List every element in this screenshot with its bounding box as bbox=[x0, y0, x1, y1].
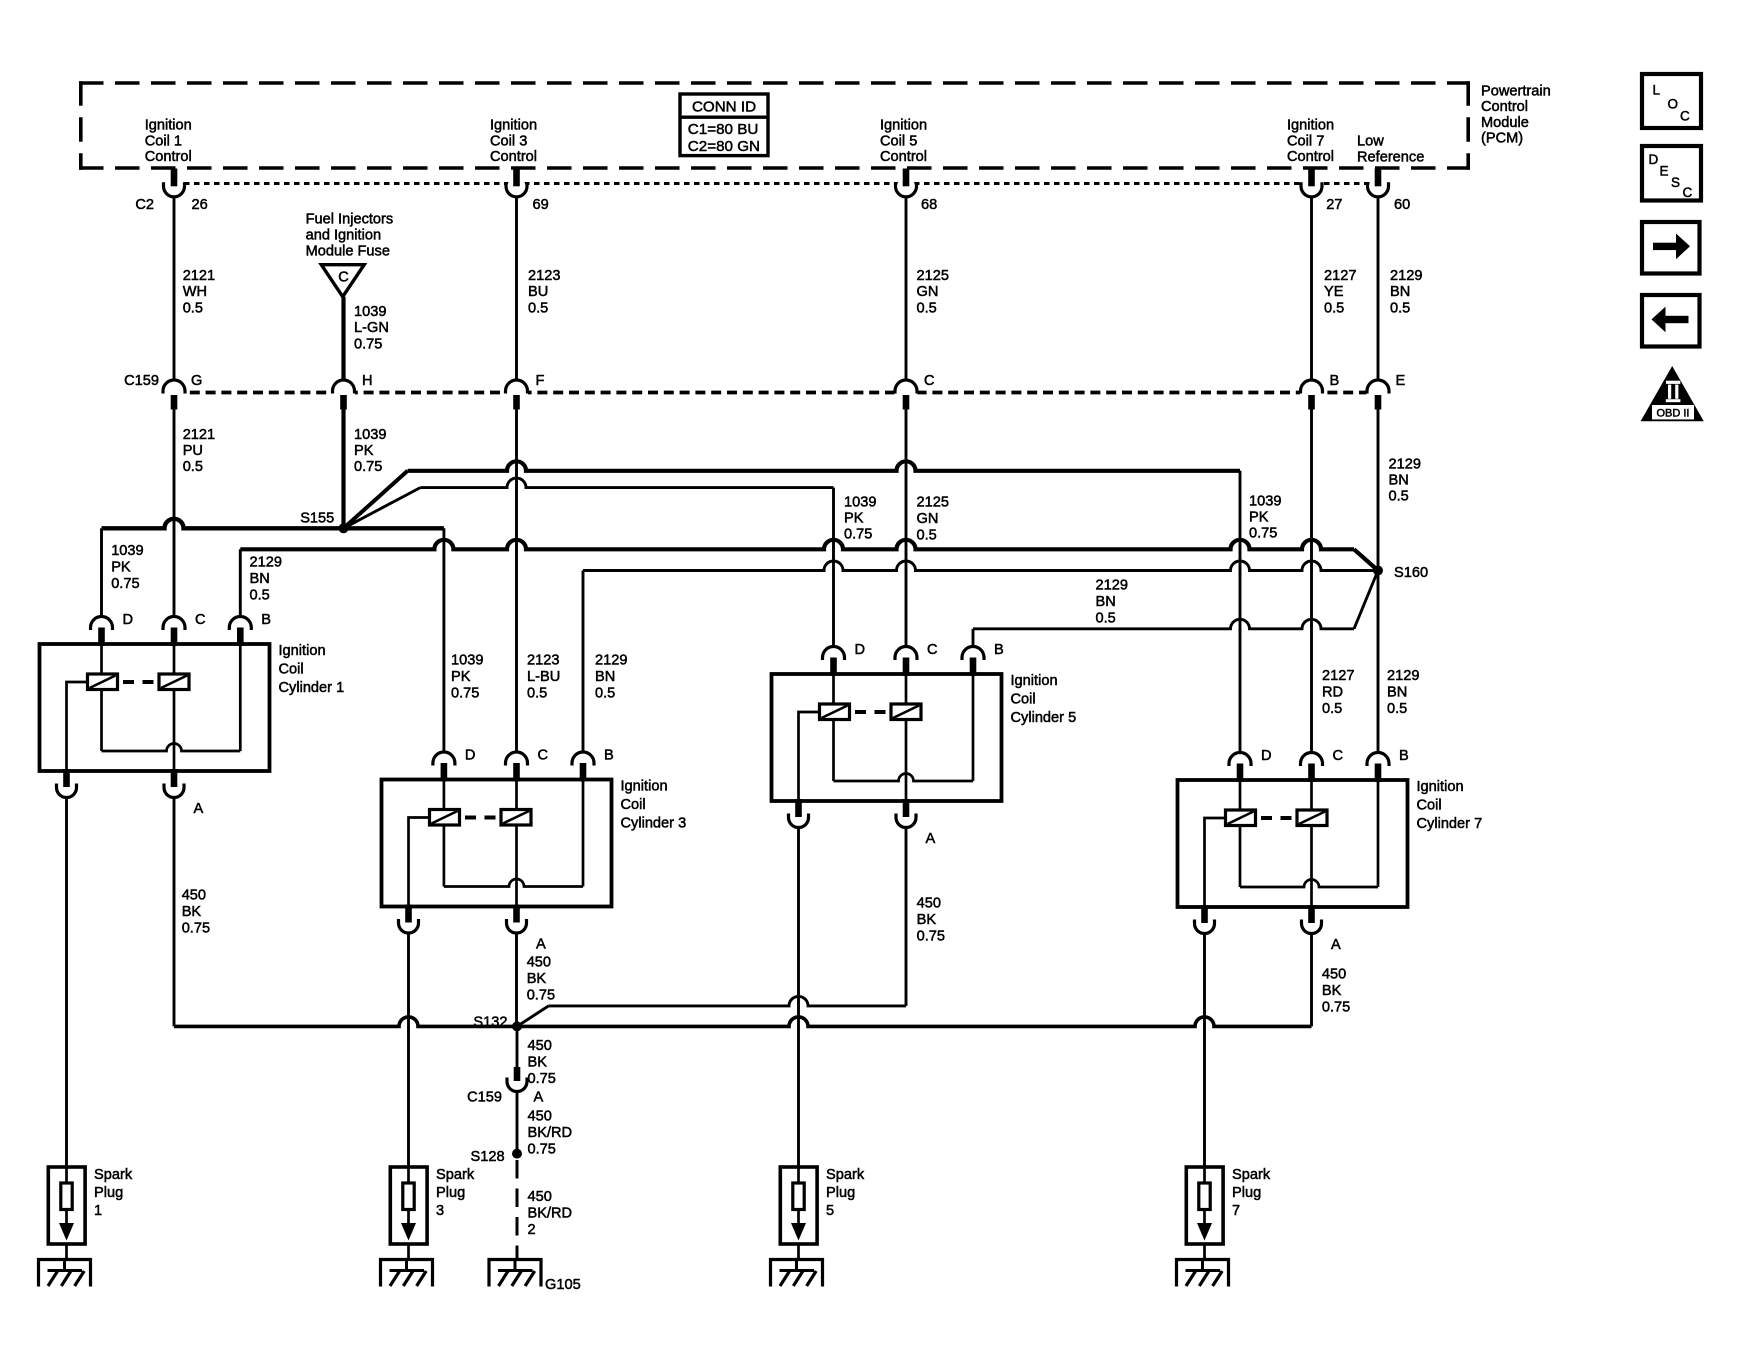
ground G105 bbox=[489, 1260, 541, 1287]
coil 3 secondary output connector bbox=[405, 905, 412, 923]
wire 2127 YE/RD 0.5 (C159 B to coil7 pin C) bbox=[1310, 410, 1313, 753]
wire 2129 BN 0.5 (pin 60 to C159 E) bbox=[1377, 197, 1380, 382]
spark plug 3 bbox=[390, 1167, 475, 1260]
svg-text:S128: S128 bbox=[471, 1149, 505, 1165]
svg-text:3: 3 bbox=[436, 1203, 444, 1219]
svg-text:A: A bbox=[926, 831, 936, 847]
svg-text:Plug: Plug bbox=[1232, 1185, 1261, 1201]
coil 3 winding mechanical link (dashed) bbox=[465, 816, 476, 820]
svg-text:BN: BN bbox=[1390, 284, 1410, 300]
svg-text:2129: 2129 bbox=[1387, 668, 1419, 684]
svg-text:H: H bbox=[362, 373, 373, 389]
svg-text:1039: 1039 bbox=[111, 543, 143, 559]
wire label 450 BK 0.75 (coil1 A) bbox=[182, 888, 210, 937]
spark plug 7 bbox=[1186, 1167, 1271, 1260]
wire label 2125 GN 0.5 (coil5 C) bbox=[917, 495, 949, 544]
svg-text:Control: Control bbox=[490, 149, 537, 165]
coil 3 pin B connector bbox=[572, 752, 594, 766]
coil 1 winding mechanical link (dashed) bbox=[123, 680, 134, 684]
ground (spark plug 3) bbox=[381, 1260, 433, 1287]
svg-text:D: D bbox=[123, 612, 134, 628]
svg-text:GN: GN bbox=[917, 511, 939, 527]
svg-text:C: C bbox=[1680, 109, 1690, 124]
svg-text:C159: C159 bbox=[124, 373, 159, 389]
fuse feed symbol C (power triangle) bbox=[321, 265, 364, 297]
svg-text:450: 450 bbox=[527, 955, 551, 971]
svg-text:D: D bbox=[1261, 748, 1272, 764]
PCM connector C2 pin 60 bbox=[1368, 169, 1411, 214]
PCM pin label: Ignition Coil 5 Control bbox=[880, 118, 927, 166]
svg-text:0.5: 0.5 bbox=[183, 459, 203, 475]
svg-text:0.5: 0.5 bbox=[1390, 300, 1410, 316]
svg-text:PK: PK bbox=[451, 669, 471, 685]
svg-text:26: 26 bbox=[192, 197, 208, 213]
PCM connector C2 pin 68 bbox=[896, 169, 938, 214]
wire 2129 BN coil5 pin B to splice S160 bbox=[973, 571, 1378, 647]
coil 1 pin D connector bbox=[91, 617, 113, 631]
svg-text:2129: 2129 bbox=[1096, 578, 1128, 594]
wire 2123 L-BU 0.5 (C159 F to coil3 pin C) bbox=[515, 410, 518, 753]
coil 1 secondary output connector bbox=[63, 769, 70, 787]
connector C159 pin F bbox=[505, 373, 545, 410]
ground (spark plug 7) bbox=[1177, 1260, 1229, 1287]
svg-text:2125: 2125 bbox=[917, 495, 949, 511]
svg-text:L-BU: L-BU bbox=[527, 669, 560, 685]
svg-text:Ignition: Ignition bbox=[621, 779, 668, 795]
connector C159 pin B bbox=[1300, 373, 1339, 410]
svg-text:Ignition: Ignition bbox=[145, 118, 192, 134]
svg-text:1039: 1039 bbox=[451, 653, 483, 669]
coil 5 pin C connector bbox=[895, 647, 917, 661]
spark plug 1 secondary wire bbox=[65, 798, 68, 1167]
svg-text:2127: 2127 bbox=[1324, 268, 1356, 284]
svg-text:2129: 2129 bbox=[250, 555, 282, 571]
svg-text:C2: C2 bbox=[135, 197, 154, 213]
icon back arrow button bbox=[1642, 295, 1700, 347]
svg-text:BK: BK bbox=[528, 1055, 548, 1071]
wire label 2121 WH 0.5 bbox=[183, 268, 215, 316]
wire 1039 PK branch S155 to coil3 pin D bbox=[344, 528, 444, 752]
icon forward arrow button bbox=[1642, 222, 1700, 274]
wire 2129 BN 0.5 (C159 E through S160 to coil7 pin B) bbox=[1377, 410, 1380, 753]
wire 2125 GN 0.5 (C159 C to coil5 pin C) bbox=[905, 410, 908, 647]
wire 1039 PK branch S155 to coil5 pin D bbox=[344, 478, 834, 646]
svg-text:5: 5 bbox=[826, 1203, 834, 1219]
svg-text:O: O bbox=[1668, 97, 1679, 112]
wire label 1039 PK 0.75 (to coil5 D) bbox=[844, 495, 876, 543]
svg-text:0.75: 0.75 bbox=[354, 459, 382, 475]
splice S160 bbox=[1373, 566, 1383, 576]
svg-text:B: B bbox=[604, 748, 614, 764]
svg-text:2121: 2121 bbox=[183, 268, 215, 284]
svg-text:WH: WH bbox=[183, 284, 207, 300]
ignition coil cylinder 3 assembly bbox=[382, 748, 687, 953]
wire label 2129 BN 0.5 (coil1 B) bbox=[250, 555, 282, 604]
wire 1039 PK branch S155 to coil1 pin D bbox=[102, 519, 344, 617]
svg-text:C: C bbox=[1333, 748, 1344, 764]
wire 2121 WH 0.5 (pin 26 to C159 G) bbox=[173, 197, 176, 382]
coil 3 pin C connector bbox=[506, 752, 528, 765]
PCM connector C2 pin 27 bbox=[1301, 169, 1342, 214]
icon DESC button bbox=[1642, 146, 1701, 201]
spark plug 3 secondary wire bbox=[407, 934, 410, 1168]
svg-text:0.75: 0.75 bbox=[1249, 526, 1277, 542]
svg-text:Coil: Coil bbox=[1011, 691, 1036, 707]
wire label 1039 PK 0.75 (to coil1 D) bbox=[111, 543, 143, 592]
wire 450 BK 0.75 coil3 pin A to splice S132 bbox=[515, 934, 518, 1027]
coil 5 primary winding wiring bbox=[832, 674, 835, 781]
PCM pin label: Ignition Coil 3 Control bbox=[490, 118, 537, 166]
svg-text:C1=80 BU: C1=80 BU bbox=[688, 121, 759, 138]
svg-text:Coil 1: Coil 1 bbox=[145, 133, 182, 149]
svg-text:27: 27 bbox=[1326, 197, 1342, 213]
wire label 450 BK 0.75 (coil5 A) bbox=[917, 896, 945, 945]
PCM pin label: Ignition Coil 7 Control bbox=[1287, 118, 1334, 166]
svg-text:Coil 7: Coil 7 bbox=[1287, 133, 1324, 149]
svg-text:A: A bbox=[1331, 937, 1341, 953]
svg-text:0.75: 0.75 bbox=[527, 988, 555, 1004]
in-line connector C159 pin A bbox=[467, 1067, 543, 1106]
svg-text:A: A bbox=[194, 801, 204, 817]
icon LOC button bbox=[1642, 74, 1701, 128]
svg-text:0.5: 0.5 bbox=[528, 300, 548, 316]
svg-text:0.5: 0.5 bbox=[1322, 701, 1342, 717]
svg-text:Cylinder 5: Cylinder 5 bbox=[1011, 710, 1077, 726]
svg-text:C: C bbox=[195, 612, 206, 628]
svg-text:A: A bbox=[534, 1090, 544, 1106]
svg-text:S132: S132 bbox=[473, 1015, 507, 1031]
svg-text:B: B bbox=[1330, 373, 1340, 389]
coil 1 pin A connector bbox=[171, 769, 178, 787]
svg-text:BK/RD: BK/RD bbox=[528, 1125, 573, 1141]
svg-text:0.5: 0.5 bbox=[595, 686, 615, 702]
spark plug 5 secondary wire bbox=[797, 828, 800, 1167]
svg-text:Low: Low bbox=[1357, 134, 1384, 150]
svg-text:0.75: 0.75 bbox=[1322, 1000, 1350, 1016]
svg-text:0.5: 0.5 bbox=[1389, 489, 1409, 505]
connector C159 pin C bbox=[895, 373, 935, 410]
wire 450 BK 0.75 coil1 pin A to splice S132 bbox=[174, 798, 517, 1026]
svg-text:BN: BN bbox=[250, 571, 270, 587]
svg-text:2129: 2129 bbox=[1389, 457, 1421, 473]
svg-text:0.5: 0.5 bbox=[527, 686, 547, 702]
svg-text:0.75: 0.75 bbox=[111, 576, 139, 592]
svg-text:PK: PK bbox=[354, 443, 374, 459]
coil 5 secondary output connector bbox=[795, 799, 802, 817]
coil 7 pin D connector bbox=[1229, 753, 1251, 766]
coil 1 pin B connector bbox=[229, 617, 251, 631]
svg-text:0.5: 0.5 bbox=[1387, 701, 1407, 717]
wire label 2129 BN 0.5 (low reference) bbox=[1389, 457, 1421, 505]
connector C2 harness dotted line bbox=[174, 182, 1385, 185]
svg-text:1039: 1039 bbox=[844, 495, 876, 511]
wire 2125 GN 0.5 (pin 68 to C159 C) bbox=[905, 197, 908, 382]
wire label 1039 PK 0.75 (coil3 D) bbox=[451, 653, 483, 702]
svg-text:PU: PU bbox=[183, 443, 203, 459]
svg-text:Ignition: Ignition bbox=[1417, 779, 1464, 795]
wire label 2127 YE 0.5 bbox=[1324, 268, 1356, 316]
ground (spark plug 1) bbox=[39, 1260, 91, 1287]
wire 2129 BN coil3 pin B to splice S160 bbox=[583, 561, 1378, 752]
icon OBD II symbol bbox=[1641, 366, 1704, 421]
svg-text:G105: G105 bbox=[545, 1277, 581, 1293]
PCM connector C2 pin 26 bbox=[164, 169, 208, 214]
svg-text:450: 450 bbox=[182, 888, 206, 904]
svg-text:Control: Control bbox=[145, 149, 192, 165]
wire 2129 BN coil1 pin B to splice S160 bbox=[240, 540, 1378, 617]
svg-text:C: C bbox=[538, 748, 549, 764]
svg-text:Reference: Reference bbox=[1357, 149, 1424, 165]
svg-text:RD: RD bbox=[1322, 685, 1343, 701]
ignition coil cylinder 5 assembly bbox=[772, 642, 1077, 847]
svg-text:E: E bbox=[1660, 164, 1669, 179]
svg-text:0.5: 0.5 bbox=[1324, 300, 1344, 316]
coil 3 pin D connector bbox=[433, 752, 455, 765]
svg-text:2121: 2121 bbox=[183, 427, 215, 443]
ignition coil cylinder 7 assembly bbox=[1178, 748, 1483, 953]
svg-text:Ignition: Ignition bbox=[490, 118, 537, 134]
svg-text:Coil: Coil bbox=[279, 661, 304, 677]
coil 7 pin A connector bbox=[1308, 905, 1315, 923]
svg-text:BK: BK bbox=[917, 912, 937, 928]
svg-text:YE: YE bbox=[1324, 284, 1344, 300]
svg-text:450: 450 bbox=[917, 896, 941, 912]
svg-text:Plug: Plug bbox=[826, 1185, 855, 1201]
label: Fuel Injectors and Ignition Module Fuse bbox=[306, 212, 394, 260]
PCM pin label: Ignition Coil 1 Control bbox=[145, 118, 192, 166]
ground (spark plug 5) bbox=[771, 1260, 823, 1287]
svg-text:1: 1 bbox=[94, 1203, 102, 1219]
connector C159 pin E bbox=[1367, 373, 1406, 410]
svg-text:1039: 1039 bbox=[354, 427, 386, 443]
coil 7 primary winding wiring bbox=[1239, 780, 1242, 887]
coil 5 pin A connector bbox=[903, 799, 910, 817]
PCM module dashed box (Powertrain Control Module) bbox=[79, 81, 1470, 170]
svg-text:2: 2 bbox=[528, 1222, 536, 1238]
coil 5 pin D connector bbox=[823, 647, 845, 661]
svg-text:BU: BU bbox=[528, 284, 548, 300]
svg-text:C: C bbox=[924, 373, 935, 389]
wire label 450 BK 0.75 (below S132) bbox=[528, 1038, 556, 1087]
svg-text:Ignition: Ignition bbox=[1287, 118, 1334, 134]
wire label 2123 L-BU 0.5 (coil3 C) bbox=[527, 653, 560, 702]
svg-text:69: 69 bbox=[533, 197, 549, 213]
svg-text:C: C bbox=[927, 642, 938, 658]
svg-text:1039: 1039 bbox=[1249, 494, 1281, 510]
wire 2127 YE 0.5 (pin 27 to C159 B) bbox=[1310, 197, 1313, 382]
svg-text:C: C bbox=[1683, 185, 1693, 200]
coil 1 primary winding wiring bbox=[100, 644, 103, 751]
svg-text:Ignition: Ignition bbox=[279, 643, 326, 659]
coil 3 primary winding wiring bbox=[443, 780, 446, 887]
svg-text:Module Fuse: Module Fuse bbox=[306, 244, 390, 260]
svg-text:D: D bbox=[465, 748, 476, 764]
svg-text:Plug: Plug bbox=[436, 1185, 465, 1201]
svg-text:Spark: Spark bbox=[94, 1167, 133, 1183]
svg-text:0.75: 0.75 bbox=[528, 1071, 556, 1087]
svg-text:60: 60 bbox=[1394, 197, 1410, 213]
svg-text:Coil: Coil bbox=[1417, 797, 1442, 813]
coil 7 winding mechanical link (dashed) bbox=[1261, 816, 1272, 820]
svg-text:2123: 2123 bbox=[527, 653, 559, 669]
CONN ID table bbox=[680, 94, 768, 156]
svg-text:S: S bbox=[1671, 175, 1680, 190]
svg-text:Cylinder 1: Cylinder 1 bbox=[279, 680, 345, 696]
svg-text:Control: Control bbox=[880, 149, 927, 165]
svg-text:D: D bbox=[855, 642, 866, 658]
svg-text:BK: BK bbox=[182, 904, 202, 920]
svg-text:C: C bbox=[338, 270, 349, 286]
splice S155 bbox=[339, 523, 349, 533]
svg-text:E: E bbox=[1396, 373, 1406, 389]
svg-text:2127: 2127 bbox=[1322, 668, 1354, 684]
svg-text:0.75: 0.75 bbox=[917, 929, 945, 945]
svg-text:1039: 1039 bbox=[354, 304, 386, 320]
splice S128 bbox=[512, 1149, 522, 1159]
svg-text:450: 450 bbox=[528, 1109, 552, 1125]
wire label 2129 BN 0.5 (coil7 B) bbox=[1387, 668, 1419, 717]
svg-text:0.5: 0.5 bbox=[917, 300, 937, 316]
svg-text:7: 7 bbox=[1232, 1203, 1240, 1219]
svg-text:BN: BN bbox=[595, 669, 615, 685]
svg-text:(PCM): (PCM) bbox=[1481, 131, 1523, 147]
svg-text:Spark: Spark bbox=[436, 1167, 475, 1183]
svg-text:2129: 2129 bbox=[595, 653, 627, 669]
svg-text:S155: S155 bbox=[300, 510, 334, 526]
wire label 450 BK/RD 2 bbox=[528, 1189, 573, 1238]
svg-text:Control: Control bbox=[1481, 99, 1528, 115]
svg-text:Coil 3: Coil 3 bbox=[490, 133, 527, 149]
wire 2121 PU 0.5 (C159 G to coil1 pin C) bbox=[173, 410, 176, 617]
wire label 2123 BU 0.5 bbox=[528, 268, 560, 316]
svg-text:Plug: Plug bbox=[94, 1185, 123, 1201]
svg-text:CONN ID: CONN ID bbox=[692, 99, 756, 116]
svg-text:2129: 2129 bbox=[1390, 268, 1422, 284]
svg-text:B: B bbox=[1399, 748, 1409, 764]
svg-text:GN: GN bbox=[917, 284, 939, 300]
svg-text:0.75: 0.75 bbox=[451, 686, 479, 702]
svg-text:Fuel Injectors: Fuel Injectors bbox=[306, 212, 394, 228]
svg-text:F: F bbox=[536, 373, 545, 389]
svg-text:0.5: 0.5 bbox=[1096, 611, 1116, 627]
wire label 2121 PU 0.5 bbox=[183, 427, 215, 475]
svg-text:2125: 2125 bbox=[917, 268, 949, 284]
svg-text:Cylinder 3: Cylinder 3 bbox=[621, 815, 687, 831]
svg-text:0.75: 0.75 bbox=[182, 921, 210, 937]
wire label 1039 PK 0.75 bbox=[354, 427, 386, 475]
wire 1039 PK branch S155 to coil7 pin D bbox=[344, 461, 1241, 752]
svg-text:PK: PK bbox=[111, 560, 131, 576]
svg-text:D: D bbox=[1649, 152, 1659, 167]
svg-text:B: B bbox=[261, 612, 271, 628]
svg-text:C2=80 GN: C2=80 GN bbox=[688, 138, 760, 155]
svg-text:Coil 5: Coil 5 bbox=[880, 133, 917, 149]
wire label 2127 RD 0.5 (coil7 C) bbox=[1322, 668, 1354, 717]
svg-text:BK: BK bbox=[1322, 983, 1342, 999]
svg-text:BK/RD: BK/RD bbox=[528, 1206, 573, 1222]
wire label 450 BK 0.75 (coil7 A) bbox=[1322, 967, 1350, 1016]
wire label 1039 PK 0.75 (to coil7 D) bbox=[1249, 494, 1281, 542]
coil 7 pin B connector bbox=[1367, 753, 1389, 766]
wire label 2129 BN 0.5 bbox=[1390, 268, 1422, 316]
wire 450 BK/RD 0.75 C159 A to splice S128 bbox=[516, 1092, 519, 1154]
wire 450 BK 0.75 S132 to C159 A bbox=[516, 1026, 519, 1067]
in-line connector C159 dashed line bbox=[174, 391, 1378, 395]
coil 3 pin A connector bbox=[513, 905, 520, 923]
svg-text:Control: Control bbox=[1287, 149, 1334, 165]
svg-text:BN: BN bbox=[1096, 594, 1116, 610]
coil 5 winding mechanical link (dashed) bbox=[855, 710, 866, 714]
wire label 450 BK 0.75 (coil3 A) bbox=[527, 955, 555, 1004]
svg-text:2123: 2123 bbox=[528, 268, 560, 284]
svg-text:Module: Module bbox=[1481, 115, 1529, 131]
svg-text:0.75: 0.75 bbox=[528, 1142, 556, 1158]
svg-text:B: B bbox=[994, 642, 1004, 658]
svg-text:S160: S160 bbox=[1394, 565, 1428, 581]
svg-text:and Ignition: and Ignition bbox=[306, 228, 381, 244]
spark plug 5 bbox=[780, 1167, 865, 1260]
svg-text:68: 68 bbox=[921, 197, 937, 213]
ignition coil cylinder 1 assembly bbox=[40, 612, 345, 817]
svg-text:0.75: 0.75 bbox=[354, 336, 382, 352]
svg-text:Spark: Spark bbox=[826, 1167, 865, 1183]
coil 7 pin C connector bbox=[1301, 753, 1323, 766]
svg-text:OBD II: OBD II bbox=[1656, 408, 1689, 420]
wire 450 BK 0.75 coil7 pin A to splice S132 bbox=[517, 934, 1312, 1026]
svg-text:L-GN: L-GN bbox=[354, 320, 389, 336]
svg-text:PK: PK bbox=[1249, 510, 1269, 526]
svg-text:Cylinder 7: Cylinder 7 bbox=[1417, 816, 1483, 832]
wire label 1039 L-GN 0.75 bbox=[354, 304, 389, 352]
connector C159 pin G bbox=[163, 373, 203, 410]
svg-text:Spark: Spark bbox=[1232, 1167, 1271, 1183]
svg-text:L: L bbox=[1653, 83, 1661, 98]
spark plug 7 secondary wire bbox=[1203, 934, 1206, 1167]
svg-text:0.5: 0.5 bbox=[917, 528, 937, 544]
svg-text:0.5: 0.5 bbox=[183, 300, 203, 316]
svg-text:Powertrain: Powertrain bbox=[1481, 84, 1551, 100]
splice S132 bbox=[512, 1021, 522, 1031]
svg-text:Coil: Coil bbox=[621, 797, 646, 813]
svg-text:BN: BN bbox=[1389, 473, 1409, 489]
svg-text:450: 450 bbox=[1322, 967, 1346, 983]
wire label 2129 BN 0.5 (coil3 B) bbox=[595, 653, 627, 702]
connector C159 pin H bbox=[332, 373, 373, 410]
spark plug 1 bbox=[48, 1167, 133, 1260]
wire label 2125 GN 0.5 bbox=[917, 268, 949, 316]
PCM connector C2 pin 69 bbox=[506, 169, 549, 214]
coil 5 pin B connector bbox=[962, 647, 984, 661]
wire label 2129 BN 0.5 (coil5 B) bbox=[1096, 578, 1128, 627]
svg-text:450: 450 bbox=[528, 1189, 552, 1205]
svg-text:C159: C159 bbox=[467, 1090, 502, 1106]
svg-text:G: G bbox=[191, 373, 202, 389]
svg-text:450: 450 bbox=[528, 1038, 552, 1054]
wire 1039 PK 0.75 (C159 H to splice S155) bbox=[341, 410, 345, 529]
svg-text:A: A bbox=[536, 937, 546, 953]
svg-text:PK: PK bbox=[844, 511, 864, 527]
coil 1 pin C connector bbox=[163, 617, 185, 631]
wire 450 BK 0.75 coil5 pin A to splice S132 bbox=[517, 828, 906, 1026]
wire label 450 BK/RD 0.75 bbox=[528, 1109, 573, 1158]
coil 7 secondary output connector bbox=[1201, 905, 1208, 923]
svg-text:0.5: 0.5 bbox=[250, 588, 270, 604]
wire 1039 L-GN 0.75 (fuse to C159 H) bbox=[341, 297, 345, 382]
svg-text:BK: BK bbox=[527, 971, 547, 987]
label: Powertrain Control Module (PCM) bbox=[1481, 84, 1551, 147]
svg-text:Ignition: Ignition bbox=[1011, 673, 1058, 689]
svg-text:Ignition: Ignition bbox=[880, 118, 927, 134]
